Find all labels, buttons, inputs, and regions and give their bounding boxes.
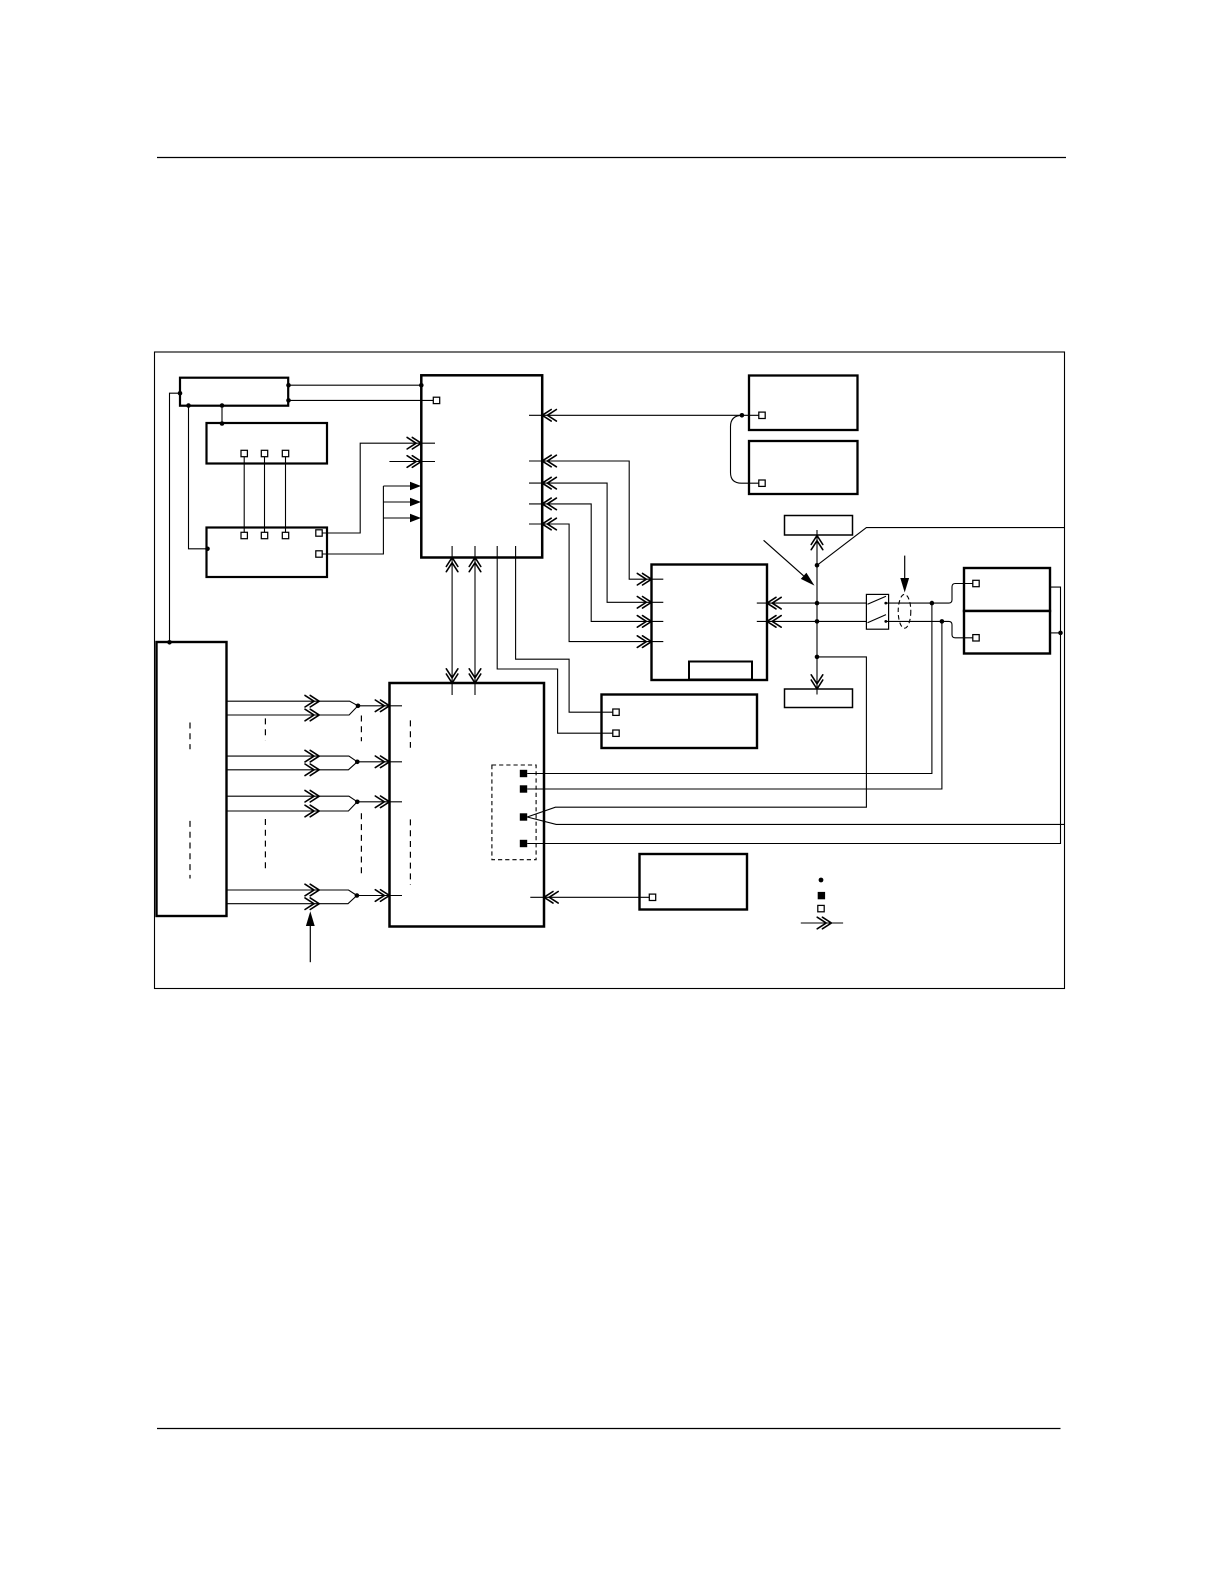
block B3 xyxy=(207,528,328,578)
wire U1 right2 to U2 left1 xyxy=(529,461,663,579)
junction dot merge1 xyxy=(356,704,361,709)
triangle input 3 to U1 xyxy=(410,514,421,522)
wire U3 square3 upper branch to bus xyxy=(527,657,866,817)
legend filled square symbol xyxy=(818,892,825,899)
pin square B3-2 xyxy=(261,532,267,538)
wire B1 bottom to B2 top xyxy=(221,406,223,424)
filled square U3-3 xyxy=(520,813,527,820)
block D top down-chevron xyxy=(811,675,823,689)
U3 right chevron (pointing left into box) xyxy=(544,892,558,904)
junction dot bus line1 xyxy=(815,601,820,606)
wire M pair4 upper xyxy=(227,890,357,896)
switch contact dot 1 xyxy=(884,602,887,605)
block U3 (large lower-middle box) xyxy=(390,683,545,927)
vertical bus under block C xyxy=(816,530,818,695)
wire E2 right to junction xyxy=(1050,632,1061,634)
block A (upper-right box 1) xyxy=(749,376,858,431)
block G (bottom box) xyxy=(640,854,748,910)
wire U1 right1 to block A pin xyxy=(529,414,759,416)
U2 right chevrons (pointing left into box) xyxy=(767,597,781,609)
wire merge1 to U3 left1 xyxy=(358,705,402,707)
pin square F2 xyxy=(613,730,619,736)
annotation arrow to cable (vertical) xyxy=(900,556,909,593)
block U1 (large upper-middle box) xyxy=(421,375,542,557)
junction dot U1 left edge xyxy=(419,383,424,388)
arrowheads: U1 left chevrons xyxy=(407,437,421,449)
pin square U1 left xyxy=(433,397,439,403)
wire B3 right pin1 to U1 left arrow1 xyxy=(322,443,435,533)
wire M pair2 upper xyxy=(227,756,358,762)
wire M pair3 upper xyxy=(227,796,358,802)
junction dot B3 left edge xyxy=(205,547,210,552)
wire switch out1 to E1 pin xyxy=(886,584,973,604)
annotation arrow bottom (vertical up) xyxy=(306,911,315,962)
junction dot line1 right xyxy=(930,601,935,606)
wire U2 right1 through switch to junction xyxy=(757,602,867,604)
ellipsis dashes inside M (upper) xyxy=(189,723,191,750)
wire B1 right to U1 pin square (lower) xyxy=(289,399,434,401)
wire M pair1 lower xyxy=(227,706,359,715)
stub wire into U1 left arrow2 xyxy=(389,461,435,463)
ellipsis dashes inside U3 (upper) xyxy=(409,720,411,747)
block D (small bar below bus) xyxy=(785,689,853,708)
wire bus to frame right edge (upper swoosh) xyxy=(817,528,1065,566)
figure frame xyxy=(155,352,1065,989)
wire B2 pin3 to B3 pin3 xyxy=(285,457,287,533)
mid-wire chevrons on M pair wires xyxy=(305,695,319,707)
block U2 (middle box) xyxy=(652,565,768,681)
block E1 (right box upper half) xyxy=(964,568,1050,611)
ellipsis dashes col2 (upper) xyxy=(264,718,266,740)
ellipsis dashes col3 (upper) xyxy=(360,716,362,742)
wire M pair3 lower xyxy=(227,802,358,811)
wire U2 right2 through switch to junction xyxy=(757,620,867,622)
wire merge4 to U3 left4 xyxy=(357,895,402,897)
junction dot merge4 xyxy=(355,893,360,898)
pin square block A xyxy=(759,412,765,418)
wire U3 square4 to E boxes right side xyxy=(527,587,1060,843)
wire U1 right3 to U2 left2 xyxy=(529,483,663,602)
annotation arrow to bus (diagonal) xyxy=(764,540,815,585)
wire B2 pin2 to B3 pin2 xyxy=(264,457,266,533)
ellipsis dashes inside U3 (lower) xyxy=(409,819,411,884)
U1 bottom up-chevrons xyxy=(446,558,458,572)
wire merge2 to U3 left2 xyxy=(357,761,402,763)
pin square B3-3 xyxy=(282,532,288,538)
top horizontal rule xyxy=(157,157,1066,159)
wire block G pin to U3 right arrow xyxy=(530,896,649,898)
block B1 (top-left small box) xyxy=(180,378,288,406)
pin square G xyxy=(649,894,655,900)
pin square B2-1 xyxy=(241,450,247,456)
junction dot B2 top edge xyxy=(220,421,225,426)
wire U3 square3 lower branch to frame right edge xyxy=(527,817,1064,824)
pin square E1 xyxy=(973,580,979,586)
block B2 xyxy=(207,423,328,464)
legend junction dot symbol xyxy=(819,878,824,883)
filled square U3-4 xyxy=(520,840,527,847)
wire junction A down to block B pin xyxy=(731,415,759,483)
switch blade 2 xyxy=(868,615,887,623)
switch contact dot 2 xyxy=(884,620,887,623)
wire U1 bottom line2 to block F pin1 xyxy=(516,546,613,712)
pin square B2-3 xyxy=(282,450,288,456)
filled square U3-1 xyxy=(520,770,527,777)
triangle input 2 to U1 xyxy=(410,498,421,506)
junction dot M top xyxy=(167,640,172,645)
junction dot E right side xyxy=(1058,631,1063,636)
ellipsis dashes col2 (lower) xyxy=(264,819,266,873)
block E2 (right box lower half) xyxy=(964,611,1050,654)
wire U1 right4 to U2 left3 xyxy=(529,504,663,622)
ellipsis dashes col3 (lower) xyxy=(360,813,362,874)
junction dot near block A xyxy=(740,413,745,418)
bus U1 bottom to U3 top (right) xyxy=(474,546,476,695)
block M (left tall box) xyxy=(157,642,227,916)
wire junction2 down to U3 square2 xyxy=(527,621,942,789)
wire merge3 to U3 left3 xyxy=(357,801,402,803)
filled square U3-2 xyxy=(520,785,527,792)
junction dot line2 right xyxy=(940,619,945,624)
block C bottom up-chevron xyxy=(811,536,823,550)
U2 left chevrons xyxy=(637,573,651,585)
switch blade 1 xyxy=(868,596,887,604)
U3 top down-chevrons xyxy=(446,669,458,683)
wire B1 left down to block M top xyxy=(170,393,181,642)
legend open square symbol xyxy=(818,905,824,911)
junction dot bus line2 xyxy=(815,619,820,624)
wire B2 pin1 to B3 pin1 xyxy=(243,457,245,533)
pin square B2-2 xyxy=(261,450,267,456)
triangle input 1 to U1 xyxy=(410,482,421,490)
pin square E2 xyxy=(973,635,979,641)
junction dot B1 bottom1 xyxy=(186,403,191,408)
junction dot bus top xyxy=(815,563,820,568)
wire junction1 down to U3 square1 xyxy=(527,603,932,773)
U3 left chevrons xyxy=(375,700,389,712)
bottom horizontal rule xyxy=(157,1428,1061,1430)
bus U1 bottom to U3 top (left) xyxy=(451,546,453,695)
junction dot B1 left xyxy=(178,391,183,396)
wire switch out2 to E2 pin xyxy=(886,621,973,637)
pin square B3 right2 xyxy=(316,551,322,557)
wire B1 bottom down to B3 left xyxy=(189,406,207,549)
block C (small bar above bus) xyxy=(785,516,853,536)
pin square B3 right1 xyxy=(316,530,322,536)
pin square block B xyxy=(759,480,765,486)
wire M pair4 lower xyxy=(227,896,357,904)
wire B3 right pin2 to U1 triangle inputs xyxy=(322,486,410,554)
junction dot merge3 xyxy=(355,800,360,805)
block B (upper-right box 2) xyxy=(749,441,858,494)
legend arrow symbol xyxy=(801,917,843,929)
pin square F1 xyxy=(613,709,619,715)
junction dot B1 bottom2 xyxy=(220,403,225,408)
U1 right chevrons (pointing left into box) xyxy=(542,410,556,422)
dashed cable ellipse xyxy=(898,594,911,628)
junction dot B1 right2 xyxy=(286,398,291,403)
wire U1 bottom line1 to block F pin2 xyxy=(497,546,613,733)
wire B1 right to U1 left (upper) xyxy=(289,384,422,386)
wire U1 right5 to U2 left4 xyxy=(529,524,663,642)
ellipsis dashes inside M (lower) xyxy=(189,821,191,879)
junction dot bus bottom xyxy=(815,655,820,660)
junction dot merge2 xyxy=(355,760,360,765)
junction dot B1 right1 xyxy=(286,383,291,388)
dashed option box inside U3 xyxy=(492,765,536,860)
switch box xyxy=(866,594,888,629)
wire M pair2 lower xyxy=(227,762,358,770)
wire M pair1 upper xyxy=(227,701,359,706)
block F (box right of U3) xyxy=(602,695,758,749)
pin square B3-1 xyxy=(241,532,247,538)
U2 inner sub-box xyxy=(689,662,752,680)
